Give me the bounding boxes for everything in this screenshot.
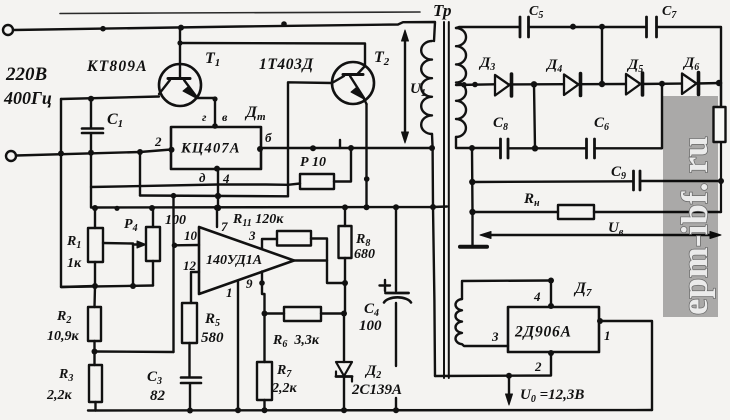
diode block 2D906A [508, 307, 599, 352]
wire T1 collector to rail [179, 28, 181, 43]
svg-text:1: 1 [226, 285, 233, 300]
terminal 1 [3, 25, 13, 35]
resistor R6 [265, 307, 345, 321]
label pin 7 [221, 219, 228, 234]
node input-C1 [88, 150, 94, 156]
node pin4-w3 [215, 205, 221, 211]
label D5 [626, 57, 643, 75]
svg-text:С4: С4 [364, 301, 379, 319]
node sec-bot [469, 145, 475, 151]
node input-x61 [58, 151, 64, 157]
svg-text:С7: С7 [662, 4, 677, 21]
wire T2 collector top [180, 43, 365, 66]
transformer primary winding [421, 41, 432, 134]
node w3-C4 [393, 204, 399, 210]
node w3-pin7 [214, 205, 220, 211]
svg-text:Д5: Д5 [626, 57, 643, 75]
resistor load right [714, 107, 726, 142]
label U1 [410, 81, 426, 99]
wire riser x535 [534, 84, 535, 148]
label R2 [47, 309, 80, 344]
resistor R5 [182, 303, 197, 377]
svg-text:1к: 1к [67, 256, 82, 271]
label C1 [107, 111, 123, 130]
wire A mid [91, 184, 300, 197]
label pin 1 [226, 285, 233, 300]
svg-text:2Д906А: 2Д906А [514, 324, 572, 341]
label C3 [147, 369, 166, 404]
svg-text:R5: R5 [204, 311, 220, 329]
node pin1-box [597, 318, 603, 324]
svg-text:9: 9 [246, 276, 253, 291]
label pin 10 [184, 228, 198, 243]
wire input line [16, 150, 171, 156]
svg-text:Uв: Uв [608, 220, 624, 238]
capacitor C9 [634, 171, 722, 190]
svg-text:Т1: Т1 [205, 50, 220, 69]
svg-text:1: 1 [604, 328, 611, 343]
svg-text:12: 12 [183, 258, 197, 273]
svg-text:R3: R3 [58, 367, 73, 384]
wire T2 base [288, 82, 332, 185]
resistor R8 [339, 207, 352, 313]
node rail-C3 [187, 408, 193, 414]
label pin 1 d7 [604, 328, 611, 343]
svg-text:R11 120к: R11 120к [232, 212, 284, 229]
capacitor C7 [647, 17, 722, 107]
node tap-463 [461, 82, 467, 88]
wire T2 emitter down [365, 104, 367, 207]
capacitor C4 electrolytic [380, 207, 412, 410]
node b-R10 [348, 145, 354, 151]
label C6 [594, 115, 609, 133]
label 140UD1A [206, 253, 262, 268]
label pin g [202, 110, 207, 124]
label 220V 400Hz [3, 64, 52, 108]
resistor R2 [88, 286, 101, 365]
node w3-R1 [92, 205, 98, 211]
svg-text:2,2к: 2,2к [46, 388, 73, 403]
zener D2 [336, 314, 352, 411]
svg-text:в: в [222, 110, 228, 124]
svg-text:Д6: Д6 [682, 55, 699, 73]
node rail-C4 [393, 407, 399, 413]
svg-text:680: 680 [354, 247, 375, 262]
wire left column x61 [61, 99, 95, 287]
label KTs407A [180, 141, 241, 157]
node pin-v-box [212, 123, 218, 129]
wire W2 [140, 194, 288, 197]
svg-text:100: 100 [165, 213, 186, 228]
label pin v [222, 110, 228, 124]
svg-text:б: б [265, 130, 272, 145]
label C5 [529, 4, 543, 21]
node top-riser [599, 24, 605, 30]
wire pin 9 [262, 272, 265, 314]
wire T2 emitter stub [339, 140, 341, 148]
wire secondary bottom [456, 137, 500, 148]
node d56 [659, 81, 665, 87]
svg-text:2: 2 [534, 359, 542, 374]
svg-text:С1: С1 [107, 111, 123, 130]
label R10 [300, 155, 326, 170]
voltage arrow Uv [480, 232, 721, 239]
capacitor C8 [501, 139, 587, 158]
node d6-rail [716, 80, 722, 86]
label C7 [662, 4, 677, 21]
node pin4-box [548, 303, 554, 309]
node w3-R8 [342, 204, 348, 210]
node link-R2 [92, 283, 98, 289]
diode D4 [564, 74, 625, 96]
transformer core [444, 22, 449, 378]
svg-text:U0 =12,3В: U0 =12,3В [520, 387, 584, 405]
node rail-T1 [178, 25, 184, 31]
wire pin4 riser [550, 281, 552, 308]
svg-text:R6 3,3к: R6 3,3к [272, 333, 320, 350]
wire pin 7 [216, 208, 218, 227]
label pin 4 d7 [533, 289, 541, 304]
node rail-pin1 [235, 407, 241, 413]
svg-text:3: 3 [248, 228, 256, 243]
svg-text:Дт: Дт [244, 104, 266, 123]
svg-text:580: 580 [201, 330, 224, 346]
node R2R3-tap [92, 349, 98, 355]
wire op-amp output [294, 259, 327, 261]
wire R1 wiper [103, 241, 146, 286]
label R3 [46, 367, 73, 403]
label pin 3 d7 [491, 329, 499, 344]
node loop-pin4 [548, 278, 554, 284]
label pin 3 [248, 228, 256, 243]
label pin 4 [222, 171, 230, 186]
wire primary bottom long vertical [432, 134, 435, 376]
voltage arrow Uo [506, 376, 513, 405]
op-amp U1 140UD1A [199, 227, 294, 294]
watermark band [663, 96, 718, 317]
svg-text:С3: С3 [147, 369, 162, 387]
resistor Rn [558, 205, 721, 219]
label 1T403D [259, 56, 314, 73]
transformer secondary winding [456, 28, 466, 137]
svg-text:220В: 220В [5, 64, 47, 85]
svg-text:Р4: Р4 [124, 217, 138, 234]
label pin 2 d7 [534, 359, 542, 374]
label C8 [493, 115, 508, 133]
node output-R8 [342, 280, 348, 286]
resistor R3 [89, 365, 102, 411]
label D2 [351, 363, 402, 398]
label pin 9 [246, 276, 253, 291]
node pin10 [172, 243, 178, 249]
svg-text:100: 100 [359, 318, 382, 334]
label R5 [201, 311, 224, 346]
resistor R7 [257, 314, 272, 411]
node rail-R7 [262, 407, 268, 413]
node uo-tap [506, 373, 512, 379]
wire bottom link y286 [61, 286, 153, 288]
node x472-c9 [469, 179, 475, 185]
svg-text:Тр: Тр [433, 1, 451, 20]
capacitor C1 [82, 99, 103, 153]
label C4 [359, 301, 382, 334]
svg-text:R1: R1 [66, 234, 81, 251]
node R6-right [341, 311, 347, 317]
resistor R1 [88, 208, 103, 286]
wire pin 1 d7 [599, 321, 652, 410]
wire top rail [13, 22, 435, 41]
node pin9 [259, 280, 265, 286]
label Dt [244, 104, 266, 123]
transistor T2 [332, 62, 374, 104]
wire D7 loop top [462, 281, 551, 300]
node C1-top [88, 96, 94, 102]
diode D3 [495, 74, 563, 96]
label D4 [545, 57, 562, 75]
node top-blob [570, 24, 576, 30]
label pin b [265, 130, 272, 145]
label Uv [608, 220, 624, 238]
svg-text:3: 3 [491, 329, 499, 344]
svg-text:10: 10 [184, 228, 198, 243]
node T1-collector-T [177, 40, 182, 45]
svg-text:140УД1А: 140УД1А [206, 253, 262, 268]
node b-313 [310, 145, 316, 151]
capacitor C6 [587, 84, 663, 158]
node w3-R4 [149, 205, 155, 211]
label R8 [354, 232, 375, 262]
label D6 [682, 55, 699, 73]
svg-text:2,2к: 2,2к [271, 381, 298, 396]
svg-text:10,9к: 10,9к [47, 329, 80, 344]
label Uo [520, 387, 584, 405]
wire pin 1 [237, 281, 239, 411]
wire tap to x173 [95, 350, 174, 353]
svg-text:1Т403Д: 1Т403Д [259, 56, 314, 73]
node pin-v-top [212, 96, 217, 101]
node w3-end [430, 204, 436, 210]
node rail-b [281, 21, 287, 27]
wire bottom rail [88, 409, 652, 412]
wire W3 bus [91, 153, 447, 208]
terminal 2 [6, 151, 16, 161]
resistor R11 [277, 231, 345, 283]
label 2D906A [514, 324, 572, 341]
node rail-D2 [341, 407, 347, 413]
label pin d [199, 170, 206, 185]
transistor T1 [159, 43, 215, 106]
scan artifact line top [60, 12, 420, 14]
label T1 [205, 50, 220, 69]
svg-text:КЦ407А: КЦ407А [180, 141, 241, 157]
label T2 [374, 49, 390, 68]
label C9 [611, 164, 626, 182]
wire pin 10 [174, 244, 199, 247]
svg-text:С9: С9 [611, 164, 626, 182]
resistor R10 [300, 148, 351, 189]
voltage arrow U1 [402, 30, 409, 143]
wire x173 riser [172, 196, 174, 352]
svg-text:82: 82 [150, 388, 166, 404]
resistor R4 [146, 208, 160, 286]
svg-text:Р 10: Р 10 [300, 155, 326, 170]
svg-text:д: д [199, 170, 206, 185]
svg-text:С5: С5 [529, 4, 543, 21]
svg-text:4: 4 [533, 289, 541, 304]
svg-text:epm-ibf. ru: epm-ibf. ru [675, 136, 716, 315]
wire T1 emitter to Dt pin v [214, 98, 216, 127]
diode D5 [626, 73, 681, 95]
node w3-b [114, 206, 119, 211]
node R6-left [262, 311, 268, 317]
label R4 [124, 213, 186, 234]
wire riser x602 [601, 27, 603, 84]
node rail-a [100, 26, 106, 32]
rectifier bridge U KTs407A [169, 127, 264, 172]
capacitor C3 [181, 378, 201, 411]
wire x140 riser [139, 152, 141, 196]
wire C9 row [472, 180, 633, 183]
node d45 [599, 81, 605, 87]
wire pin 2 d7 [435, 352, 551, 376]
svg-text:7: 7 [221, 219, 228, 234]
svg-text:2С139А: 2С139А [351, 382, 402, 398]
node T2e-tick [364, 176, 370, 182]
svg-text:Д7: Д7 [573, 280, 592, 299]
svg-text:Д4: Д4 [545, 57, 562, 75]
node w3-T2 [364, 204, 370, 210]
ground [460, 245, 487, 249]
label R6 [272, 333, 320, 350]
svg-text:Д3: Д3 [478, 55, 495, 73]
wire bridge output b [261, 147, 432, 149]
node d34 [531, 81, 537, 87]
node b-primary [429, 145, 435, 151]
svg-text:КТ809А: КТ809А [86, 58, 148, 75]
svg-text:R7: R7 [276, 363, 292, 380]
node pin4-w2 [215, 193, 221, 199]
label pin 12 [183, 258, 197, 273]
svg-text:Т2: Т2 [374, 49, 390, 68]
node input-x140 [137, 149, 143, 155]
label pin 2 [154, 134, 162, 149]
wire bridge pin4 down [217, 169, 219, 208]
wire secondary tap to diode row [456, 83, 494, 86]
wire Rn row left [473, 211, 559, 213]
label D7 [573, 280, 592, 299]
svg-text:С8: С8 [493, 115, 508, 133]
node c8c6 [532, 145, 538, 151]
label R7 [271, 363, 298, 396]
node tap-475 [472, 82, 478, 88]
wire pin 3 [262, 239, 277, 249]
node w2-x173 [171, 193, 177, 199]
node rail-c9 [718, 178, 724, 184]
diode D6 [682, 73, 721, 95]
capacitor C5 [520, 17, 646, 37]
svg-text:г: г [202, 110, 207, 124]
label Rn [523, 191, 540, 209]
node link-wiper [130, 283, 136, 289]
label R11 [232, 212, 284, 229]
inductor L tertiary winding [455, 299, 508, 346]
node x472-rn [469, 209, 475, 215]
svg-text:Rн: Rн [523, 191, 540, 209]
wire right rail [720, 83, 722, 212]
svg-text:Д2: Д2 [364, 363, 381, 381]
label R1 [66, 234, 82, 271]
label Tr [433, 1, 451, 20]
wire pin 12 [191, 272, 199, 303]
svg-text:400Гц: 400Гц [3, 88, 52, 108]
watermark text epm-ibf.ru [675, 136, 716, 315]
label D3 [478, 55, 495, 73]
wire column x472 to ground [471, 148, 474, 245]
label KT809A [86, 58, 148, 75]
svg-text:R2: R2 [56, 309, 71, 326]
svg-text:2: 2 [154, 134, 162, 149]
node pin2-box [548, 350, 554, 356]
wire T1 base [61, 97, 159, 100]
svg-text:С6: С6 [594, 115, 609, 133]
wire secondary top to C5 row [456, 27, 519, 28]
